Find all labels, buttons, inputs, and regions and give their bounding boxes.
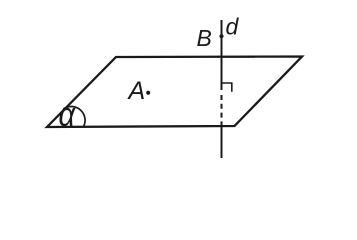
- right angle mark: [222, 83, 232, 92]
- svg-text:B: B: [197, 25, 212, 51]
- point B dot on line d: [219, 34, 223, 38]
- line d solid upper segment: [221, 20, 223, 90]
- svg-text:A: A: [127, 77, 146, 105]
- label alpha: [59, 95, 76, 134]
- svg-text:α: α: [59, 95, 76, 134]
- line d solid lower segment: [221, 126, 223, 158]
- point A dot: [146, 91, 150, 95]
- line d dashed hidden segment: [221, 95, 223, 126]
- plane (parallelogram): [47, 57, 302, 128]
- svg-text:d: d: [226, 14, 240, 40]
- angle alpha arc: [63, 106, 85, 127]
